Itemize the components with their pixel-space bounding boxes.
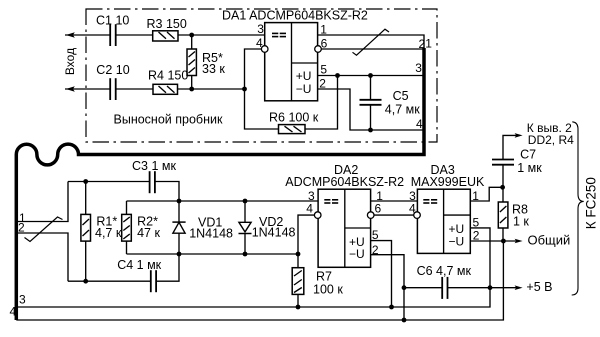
svg-text:К FC250: К FC250 xyxy=(584,177,599,229)
wire C7 to K vyv.2 arrow xyxy=(503,135,517,159)
svg-text:+5 В: +5 В xyxy=(526,280,552,294)
svg-text:R7: R7 xyxy=(316,270,332,284)
wire R6 right to +U line xyxy=(305,76,338,130)
capacitor C2 xyxy=(110,78,116,100)
svg-text:1 мк: 1 мк xyxy=(517,161,542,175)
wire DA1 pin2 (-U) to cable wire 4 xyxy=(318,89,424,130)
resistor R8 xyxy=(502,187,504,202)
svg-text:C7: C7 xyxy=(520,148,536,162)
twisted pair mark (probe output) xyxy=(353,29,390,55)
wire DA3 pin5 to +5V node xyxy=(470,228,490,288)
svg-text:4,7 к: 4,7 к xyxy=(95,226,122,240)
top rail xyxy=(127,200,319,202)
capacitor C6 xyxy=(404,287,442,289)
svg-text:C5: C5 xyxy=(393,89,409,103)
svg-text:33 к: 33 к xyxy=(202,62,225,76)
svg-text:ADCMP604BKSZ-R2: ADCMP604BKSZ-R2 xyxy=(285,175,404,189)
op-amp DA2 xyxy=(318,189,371,267)
svg-text:DA1 ADCMP604BKSZ-R2: DA1 ADCMP604BKSZ-R2 xyxy=(222,9,368,23)
wire C6 to +5V arrow xyxy=(448,287,518,289)
svg-text:C1 10: C1 10 xyxy=(96,13,129,27)
DA3 pin4 bubble xyxy=(414,212,421,219)
arrow input top xyxy=(66,32,75,37)
svg-text:Выносной пробник: Выносной пробник xyxy=(114,113,223,127)
svg-text:6: 6 xyxy=(321,36,328,50)
svg-text:C2 10: C2 10 xyxy=(96,63,129,77)
wire C4 to bottom rail xyxy=(156,254,179,281)
twisted pair mark (left) xyxy=(25,217,63,242)
wire input bottom xyxy=(65,88,110,90)
wire C1 to R3 xyxy=(116,34,153,36)
svg-text:−U: −U xyxy=(296,82,312,96)
resistor R2 xyxy=(126,201,128,214)
svg-text:1: 1 xyxy=(320,22,327,36)
wire DA2 pin1 to DA3 pin3 xyxy=(370,200,417,202)
svg-text:4: 4 xyxy=(306,202,313,216)
DA1 comparator == mark xyxy=(272,33,286,36)
DA2 pin6 bubble xyxy=(367,212,374,219)
capacitor C5 xyxy=(370,76,372,100)
wire R4 to pin4 node xyxy=(178,88,245,90)
cable wire 1 (left) xyxy=(16,182,68,222)
wire C2 to R4 xyxy=(116,88,153,90)
wire DA3 pin2 (Obshchiy) xyxy=(470,240,517,242)
svg-text:3: 3 xyxy=(415,61,422,75)
svg-text:−U: −U xyxy=(449,235,465,249)
wire DA1 pin1 to cable xyxy=(318,35,424,49)
svg-text:2: 2 xyxy=(372,243,379,257)
resistor R6 xyxy=(279,125,306,134)
wire 4 (bottom) xyxy=(16,241,503,320)
svg-text:R6 100 к: R6 100 к xyxy=(269,110,319,124)
svg-text:4,7 мк: 4,7 мк xyxy=(385,103,420,117)
resistor R7 xyxy=(297,254,299,268)
wire top rail to C3 xyxy=(68,181,150,183)
capacitor C4 xyxy=(151,270,156,292)
svg-text:1N4148: 1N4148 xyxy=(189,226,233,240)
DA1 pin6 bubble xyxy=(315,46,322,53)
wire 3 (bottom) xyxy=(16,288,490,307)
svg-text:5: 5 xyxy=(320,63,327,77)
svg-text:6: 6 xyxy=(375,201,382,215)
resistor R1 xyxy=(85,182,87,215)
svg-text:1 к: 1 к xyxy=(513,215,529,229)
arrow input bottom xyxy=(66,86,75,91)
op-amp DA1 xyxy=(265,23,318,101)
resistor R5 xyxy=(191,35,193,49)
op-amp DA3 xyxy=(417,189,470,253)
capacitor C1 xyxy=(110,24,116,46)
svg-text:R4 150: R4 150 xyxy=(148,68,188,82)
wire C3 to node rail xyxy=(155,182,179,202)
DA2 comparator == mark xyxy=(324,200,338,203)
probe dash-dot border xyxy=(86,9,437,142)
svg-text:C4 1 мк: C4 1 мк xyxy=(117,258,161,272)
svg-text:DD2, R4: DD2, R4 xyxy=(528,133,574,147)
capacitor C7 xyxy=(502,165,504,188)
DA1 pin4 bubble xyxy=(261,46,268,53)
svg-text:47 к: 47 к xyxy=(137,226,160,240)
wire DA1 pin6 to cable xyxy=(321,48,424,50)
svg-text:C6 4,7 мк: C6 4,7 мк xyxy=(417,264,472,278)
wire DA1 pin4 to R6 xyxy=(245,49,279,129)
DA2 pin4 bubble xyxy=(314,212,321,219)
wire input top xyxy=(65,34,110,36)
svg-text:−U: −U xyxy=(349,247,365,261)
wire bottom to C4 xyxy=(68,280,151,282)
svg-text:Общий: Общий xyxy=(528,232,571,247)
svg-text:Вход: Вход xyxy=(63,48,77,75)
wire DA2 pin6 to DA3 pin4 xyxy=(374,214,414,216)
svg-text:5: 5 xyxy=(372,228,379,242)
svg-text:4: 4 xyxy=(256,36,263,50)
wire DA2 pin5 to wire3 xyxy=(370,241,391,307)
diode VD2 xyxy=(244,201,246,222)
wire DA1 pin5 (+U) to cable wire 3 xyxy=(318,75,424,77)
svg-text:2: 2 xyxy=(18,221,25,235)
svg-text:C3 1 мк: C3 1 мк xyxy=(132,159,176,173)
svg-text:4: 4 xyxy=(409,201,416,215)
resistor R3 xyxy=(153,31,178,41)
svg-text:1N4148: 1N4148 xyxy=(252,226,296,240)
svg-text:1: 1 xyxy=(425,37,432,51)
svg-text:100 к: 100 к xyxy=(313,283,343,297)
capacitor C3 xyxy=(150,171,155,193)
svg-text:+U: +U xyxy=(296,69,312,83)
wire DA2 pin2 to wire4 xyxy=(370,255,404,320)
svg-text:MAX999EUK: MAX999EUK xyxy=(411,175,485,189)
brace К FC250 xyxy=(572,122,584,295)
arrow K vyv.2 xyxy=(515,133,523,138)
cable (thick sheath with coil bumps) xyxy=(16,48,424,320)
svg-text:2: 2 xyxy=(319,77,326,91)
svg-text:4: 4 xyxy=(10,305,17,319)
arrow +5V xyxy=(515,285,523,290)
svg-text:R3 150: R3 150 xyxy=(147,17,187,31)
bottom rail xyxy=(127,253,299,255)
svg-text:2: 2 xyxy=(473,228,480,242)
svg-text:3: 3 xyxy=(19,293,26,307)
wire DA3 pin1 to node C7/R8 xyxy=(470,187,502,201)
DA3 comparator == mark xyxy=(423,200,437,203)
cable wire 2 (left) xyxy=(16,233,68,281)
wire R3 to DA1 pin3 xyxy=(178,34,265,36)
resistor R4 xyxy=(153,84,178,94)
svg-text:3: 3 xyxy=(257,22,264,36)
diode VD1 xyxy=(178,201,180,222)
arrow Obshchiy xyxy=(515,239,523,244)
wire bottom rail to DA2 pin4 xyxy=(298,215,314,254)
svg-text:1: 1 xyxy=(472,189,479,203)
svg-text:4: 4 xyxy=(416,117,423,131)
